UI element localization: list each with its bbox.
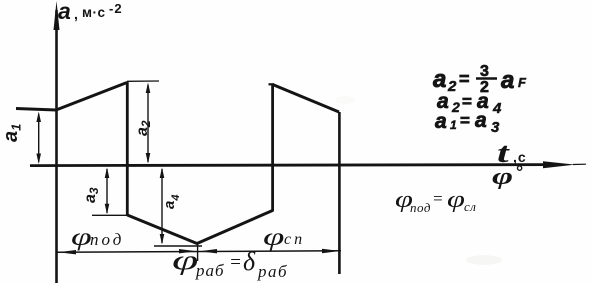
svg-text:сп: сп <box>284 231 305 248</box>
svg-text:φ: φ <box>447 187 465 213</box>
svg-text:=: = <box>432 189 443 208</box>
svg-text:под: под <box>410 200 431 215</box>
svg-text:φ: φ <box>172 245 198 276</box>
svg-text:м·с: м·с <box>82 5 106 20</box>
svg-text:a: a <box>433 66 446 93</box>
svg-text:φ: φ <box>71 223 92 250</box>
svg-text:a3: a3 <box>82 187 101 203</box>
svg-text:3: 3 <box>491 119 500 136</box>
svg-text:сл: сл <box>464 199 476 214</box>
svg-text:=: = <box>462 92 472 111</box>
svg-text:-2: -2 <box>109 1 123 16</box>
svg-text:a2: a2 <box>134 120 153 136</box>
svg-text:a: a <box>58 0 71 24</box>
svg-text:раб: раб <box>195 261 225 280</box>
svg-text:φ: φ <box>492 163 513 190</box>
svg-text:a: a <box>435 110 447 133</box>
svg-text:a4: a4 <box>161 195 182 209</box>
svg-text:2: 2 <box>451 99 460 115</box>
svg-text:°: ° <box>516 162 523 182</box>
svg-text:под: под <box>90 230 124 249</box>
svg-text:,: , <box>74 6 78 22</box>
svg-text:=: = <box>229 252 242 273</box>
svg-text:a1: a1 <box>0 124 24 142</box>
svg-text:=: = <box>459 69 470 89</box>
svg-text:1: 1 <box>450 118 457 132</box>
svg-text:φ: φ <box>263 224 284 252</box>
svg-text:a: a <box>501 67 514 94</box>
svg-text:a: a <box>475 109 487 132</box>
svg-text:раб: раб <box>257 262 288 281</box>
svg-text:F: F <box>518 75 527 90</box>
svg-text:δ: δ <box>243 247 256 276</box>
svg-text:4: 4 <box>492 100 502 117</box>
svg-text:=: = <box>460 111 470 130</box>
